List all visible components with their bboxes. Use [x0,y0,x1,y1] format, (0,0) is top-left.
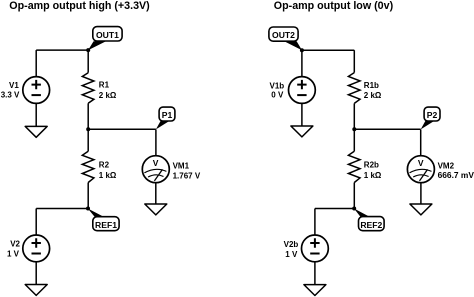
junction at OUT1 [86,48,90,52]
resistor R2 [82,151,94,182]
wire V1b to ground [301,103,303,126]
net label REF2 [354,209,384,231]
R1 labels [99,81,117,100]
net label P2 [421,107,440,129]
ground under V2 [25,285,47,296]
net label P1 [156,107,175,129]
junction at OUT2 [300,48,304,52]
svg-text:R1b: R1b [364,81,379,90]
VM1 labels [173,162,201,181]
svg-text:V2b: V2b [284,240,299,249]
svg-text:R2: R2 [99,161,110,170]
svg-text:1 kΩ: 1 kΩ [364,171,382,180]
ground under V1 [25,126,47,137]
voltage source V1 [23,77,50,104]
V2b labels [284,240,299,259]
V1 labels [1,81,20,99]
svg-text:V1b: V1b [270,81,285,90]
wire R1 to R2 [87,103,89,151]
wire top horizontal V1b to R1b [302,49,354,51]
ground under VM2 [410,204,432,215]
R2b labels [364,161,382,180]
R2 labels [99,161,117,180]
VM2 labels [438,162,474,181]
svg-text:V: V [418,158,424,168]
resistor R1b [348,73,360,104]
svg-text:REF1: REF1 [95,220,117,230]
wire junction to P2 corner [354,128,420,130]
wire VM1 to ground [155,183,157,204]
V2 labels [7,239,21,258]
svg-text:OUT2: OUT2 [272,30,295,40]
svg-text:2 kΩ: 2 kΩ [364,91,382,100]
svg-text:666.7 mV: 666.7 mV [438,170,474,180]
net label OUT1 [88,27,122,51]
wire REF1 junction to V2 [36,208,88,210]
wire R2 to REF1 junction [87,183,89,209]
junction node P1 branch [86,127,90,131]
junction node P2 branch [352,127,356,131]
wire top horizontal V1 to R1 [36,49,88,51]
wire V2b top [314,209,316,236]
resistor R1 [82,73,94,104]
svg-text:1 V: 1 V [285,250,298,259]
wire R1b to R2b [353,103,355,151]
wire junction to P1 corner [88,128,156,130]
wire V2 top [35,209,37,236]
svg-text:V: V [153,158,159,168]
net label OUT2 [269,27,302,50]
svg-text:OUT1: OUT1 [96,30,119,40]
wire V2b to ground [314,262,316,285]
wire V1b top [301,50,303,76]
svg-text:0 V: 0 V [271,91,284,100]
wire R2b to REF2 junction [353,183,355,209]
svg-text:1 kΩ: 1 kΩ [99,171,117,180]
svg-text:R2b: R2b [364,161,379,170]
svg-text:REF2: REF2 [360,220,382,230]
ground under V1b [291,126,313,137]
wire V1 top [35,50,37,77]
wire REF2 junction to V2b [315,208,354,210]
resistor R2b [348,151,360,182]
svg-text:1 V: 1 V [7,249,20,258]
voltmeter VM1 [142,156,169,183]
svg-text:2 kΩ: 2 kΩ [99,91,117,100]
svg-text:V1: V1 [9,81,19,90]
svg-text:VM1: VM1 [173,162,190,171]
wire P2 corner down to VM2 [420,129,422,155]
wire P1 corner down to VM1 [155,129,157,155]
svg-text:P2: P2 [427,110,438,120]
svg-text:1.767 V: 1.767 V [173,171,201,180]
wire VM2 to ground [420,183,422,204]
svg-text:Op-amp output low (0v): Op-amp output low (0v) [274,0,394,12]
svg-text:3.3 V: 3.3 V [1,90,20,99]
svg-text:P1: P1 [162,110,173,120]
net label REF1 [88,209,119,231]
svg-text:R1: R1 [99,81,110,90]
voltage source V2b [302,235,329,262]
wire R1 top lead [87,50,89,73]
R1b labels [364,81,382,100]
wire V2 to ground [35,262,37,285]
svg-text:V2: V2 [10,239,20,248]
wire R1b top lead [353,50,355,72]
voltage source V1b [289,77,316,104]
junction REF2 [352,207,356,211]
V1b labels [270,81,285,99]
svg-text:Op-amp output high (+3.3V): Op-amp output high (+3.3V) [9,0,150,12]
ground under VM1 [145,204,167,215]
junction REF1 [86,207,90,211]
wire V1 to ground [35,103,37,126]
voltmeter VM2 [407,156,434,183]
voltage source V2 [23,235,50,262]
ground under V2b [304,285,326,296]
